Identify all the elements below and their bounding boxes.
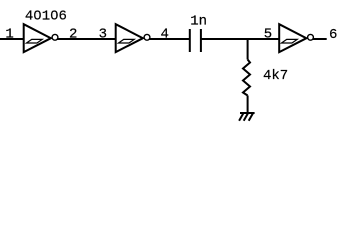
wire U1A output to U1B input bbox=[58, 38, 116, 40]
svg-text:40106: 40106 bbox=[25, 8, 67, 24]
svg-text:1n: 1n bbox=[190, 14, 207, 30]
node A junction: wire down to R1 bbox=[247, 39, 249, 60]
wire U1B output to C1 bbox=[150, 38, 190, 40]
svg-text:2: 2 bbox=[69, 27, 77, 43]
wire C1 to node A and U1C input bbox=[201, 38, 279, 40]
svg-text:4k7: 4k7 bbox=[263, 68, 288, 84]
U1C output bubble bbox=[308, 34, 314, 40]
svg-text:3: 3 bbox=[99, 27, 107, 43]
wire input net to pin 1 of U1A bbox=[0, 38, 24, 40]
resistor R1 (4k7) zigzag bbox=[243, 60, 250, 96]
inverter U1A schmitt trigger (40106) pins 1-2 bbox=[24, 24, 51, 52]
ground bbox=[239, 113, 255, 121]
inverter U1C schmitt trigger (40106) pins 5-6 bbox=[279, 24, 306, 52]
U1A output bubble bbox=[52, 34, 58, 40]
U1B output bubble bbox=[144, 34, 150, 40]
svg-text:4: 4 bbox=[161, 27, 169, 43]
inverter U1B schmitt trigger (40106) pins 3-4 bbox=[116, 24, 143, 52]
wire U1C output net 6 bbox=[313, 38, 327, 40]
svg-text:1: 1 bbox=[5, 27, 13, 43]
capacitor C1 (1n) bbox=[190, 29, 201, 52]
svg-text:6: 6 bbox=[329, 27, 337, 43]
svg-text:5: 5 bbox=[264, 27, 272, 43]
wire R1 to ground bbox=[247, 96, 249, 114]
